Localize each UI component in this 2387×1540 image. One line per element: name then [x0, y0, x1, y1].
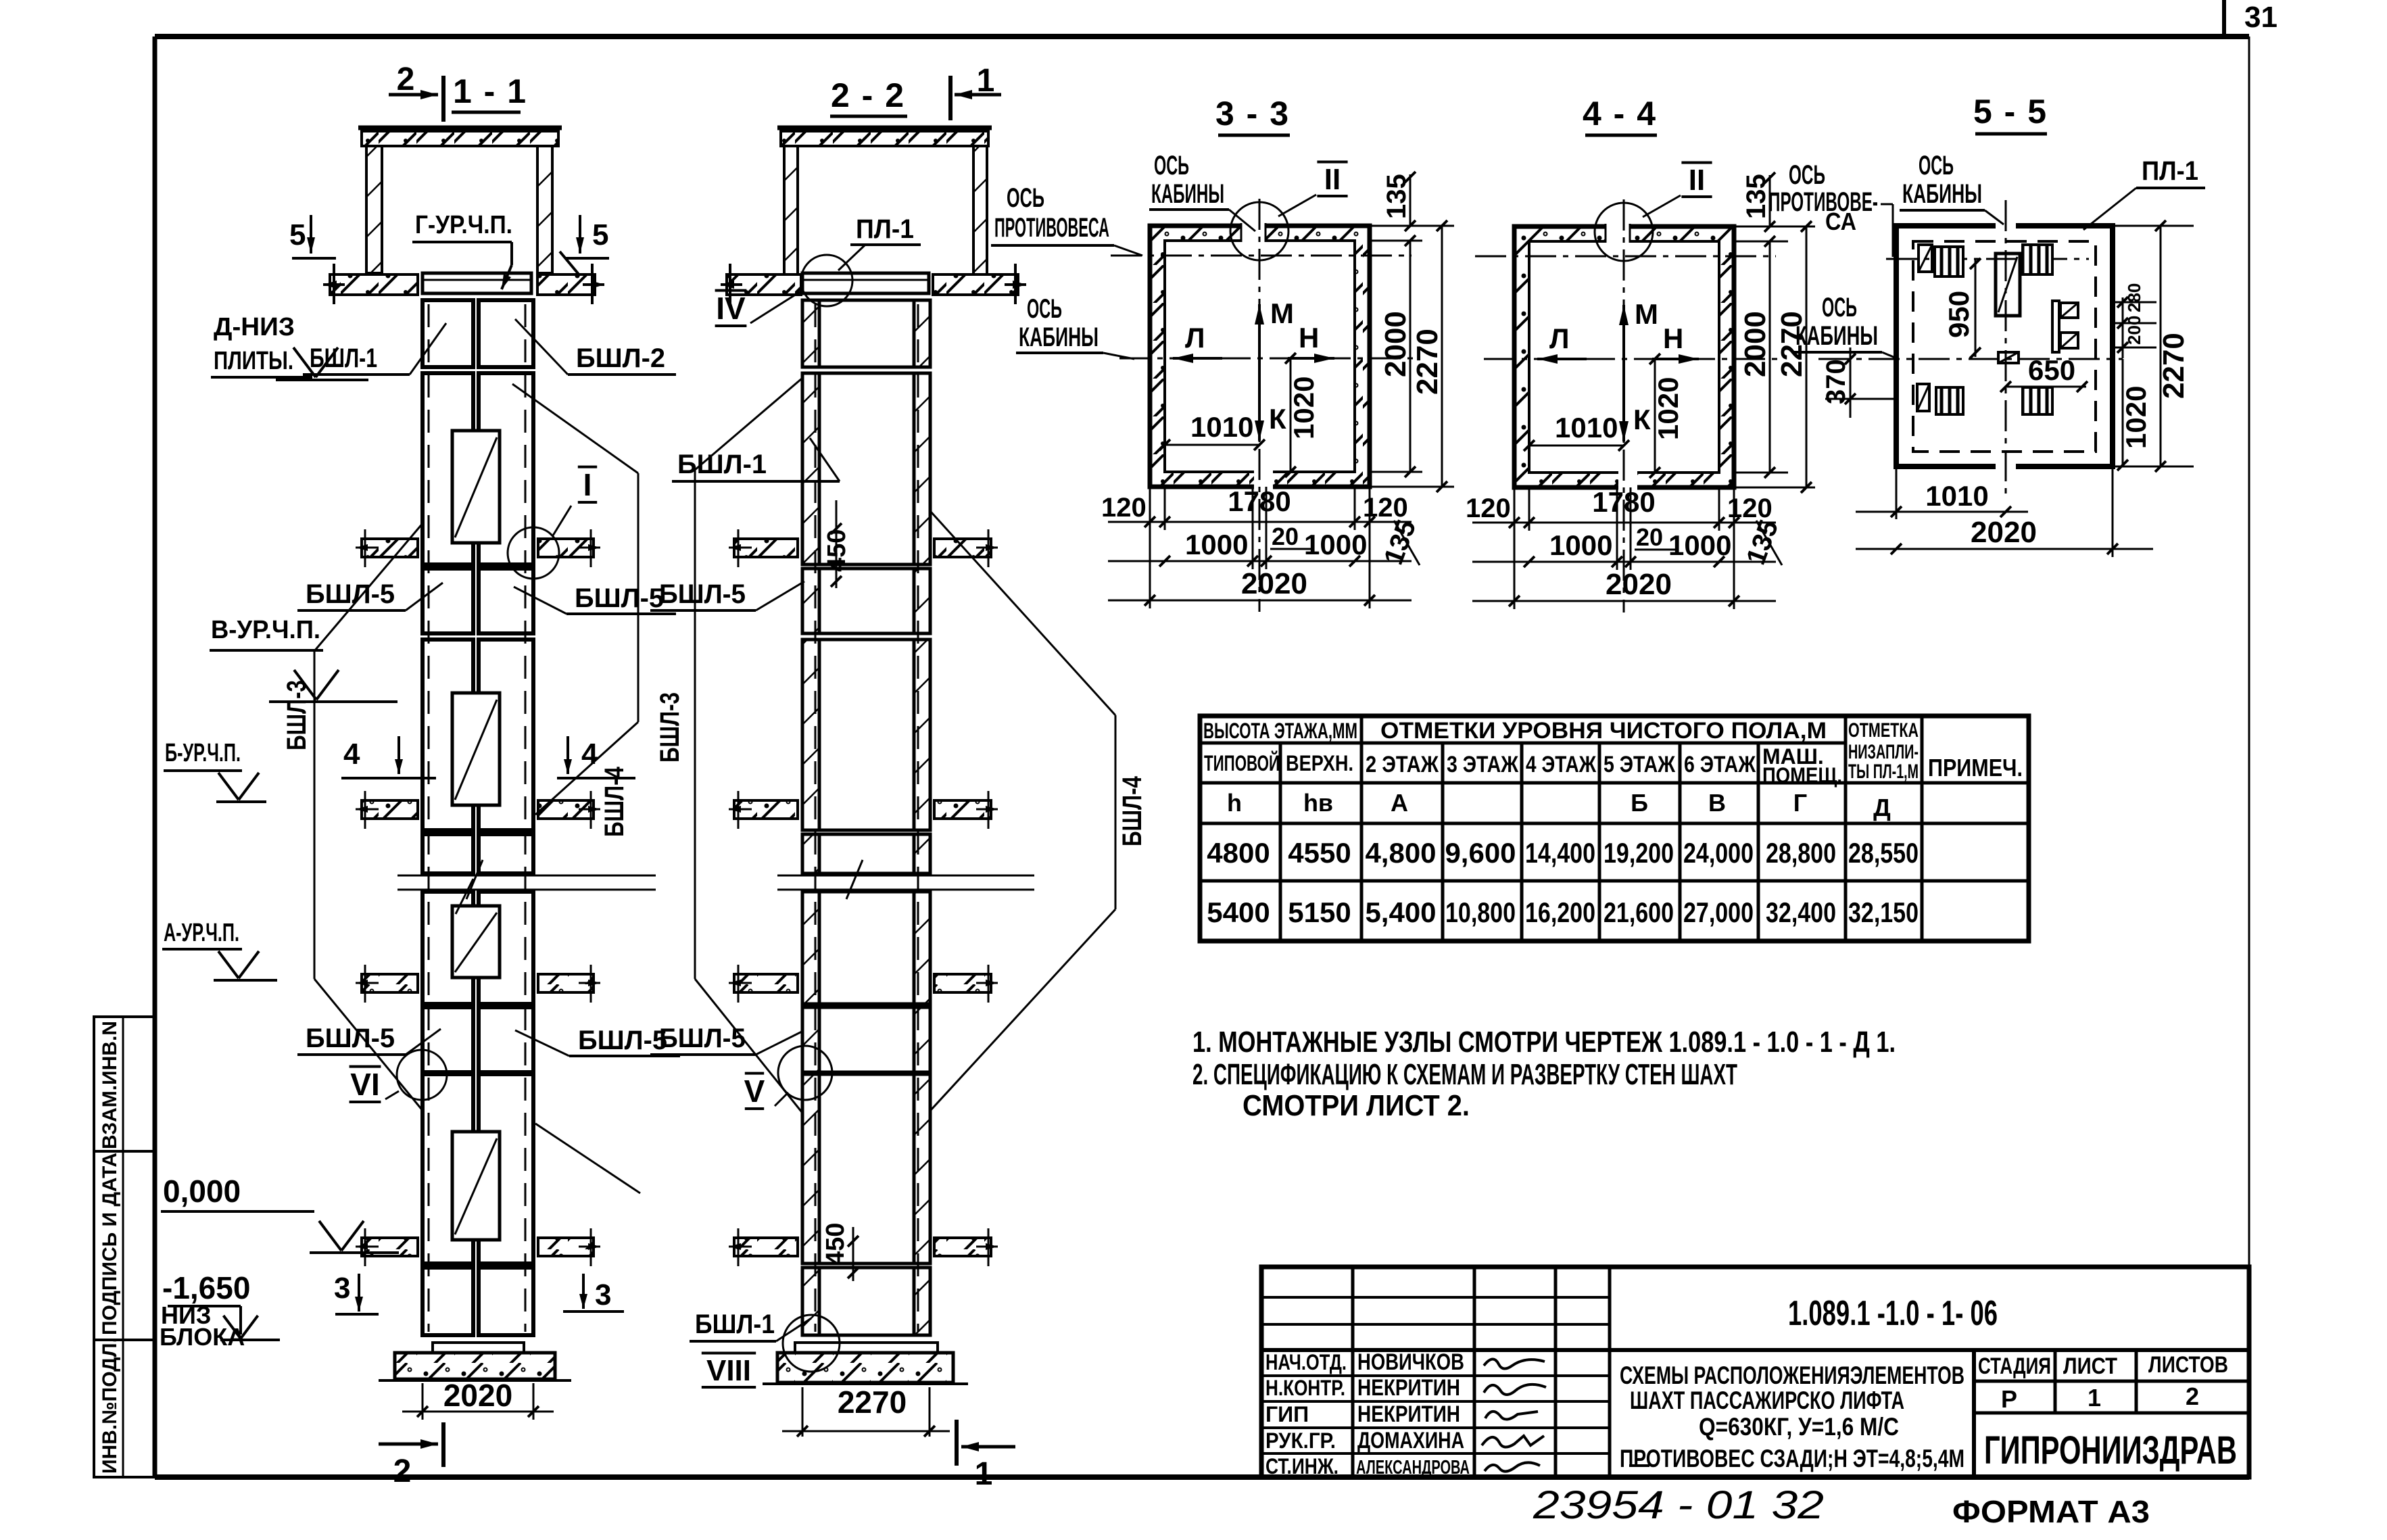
- dimension 2020 bottom of 1-1: [422, 1383, 424, 1420]
- svg-text:ПРОТИВОВЕС СЗАДИ;Н ЭТ=4,8;5,4: ПРОТИВОВЕС СЗАДИ;Н ЭТ=4,8;5,4М: [1620, 1445, 1964, 1472]
- svg-text:-1,650: -1,650: [162, 1270, 250, 1305]
- axis arrow L: [1173, 357, 1222, 360]
- svg-text:3: 3: [595, 1278, 611, 1312]
- svg-text:2270: 2270: [2157, 333, 2190, 399]
- svg-text:1020: 1020: [1288, 377, 1320, 439]
- svg-text:БШЛ-5: БШЛ-5: [306, 1024, 395, 1053]
- machine room 2-2 floor slab PL-1: [802, 273, 929, 293]
- svg-text:БШЛ-4: БШЛ-4: [1117, 775, 1147, 846]
- plan 5-5 grille bottom-left: [1936, 387, 1963, 414]
- svg-text:2 - 2: 2 - 2: [831, 76, 905, 114]
- svg-text:ГИПРОНИИЗДРАВ: ГИПРОНИИЗДРАВ: [1984, 1428, 2237, 1472]
- svg-text:6 ЭТАЖ: 6 ЭТАЖ: [1684, 752, 1756, 777]
- dimension 2020 under plan 5-5: [2112, 466, 2114, 557]
- cross-section box walls: [1514, 226, 1734, 487]
- plan 5-5 counterweight block: [1996, 254, 2020, 316]
- svg-text:5400: 5400: [1207, 896, 1270, 928]
- svg-text:4 - 4: 4 - 4: [1583, 95, 1657, 133]
- svg-text:4 ЭТАЖ: 4 ЭТАЖ: [1526, 752, 1596, 777]
- svg-text:1 - 1: 1 - 1: [453, 72, 527, 110]
- svg-text:В-УР.Ч.П.: В-УР.Ч.П.: [211, 616, 320, 644]
- detail marker II with circle on top wall: [1230, 202, 1288, 260]
- svg-text:28,800: 28,800: [1766, 837, 1836, 869]
- svg-text:БШЛ-5: БШЛ-5: [659, 1024, 746, 1053]
- svg-text:Б-УР.Ч.П.: Б-УР.Ч.П.: [165, 739, 241, 767]
- machine room 1-1 roof slab: [358, 126, 562, 130]
- machine room 1-1 left wall: [366, 146, 382, 273]
- dimension 135 top right of 4-4: [1769, 175, 1771, 226]
- detail marker II with circle on top wall: [1595, 203, 1653, 261]
- svg-text:950: 950: [1943, 291, 1975, 338]
- plan 5-5 hoist beam parts right: [2052, 301, 2059, 352]
- shaft 2-2 wall tiers: [802, 300, 819, 367]
- title block right part lines: [1972, 1350, 1976, 1477]
- svg-text:I: I: [583, 467, 592, 502]
- svg-text:4800: 4800: [1207, 837, 1270, 869]
- svg-text:БШЛ-2: БШЛ-2: [576, 343, 665, 373]
- svg-text:5,400: 5,400: [1365, 896, 1436, 928]
- axis arrow L: [1537, 358, 1587, 360]
- shaft 2-2 foundation slab: [777, 1353, 953, 1382]
- dimension 2000 right of 3-3: [1409, 241, 1412, 472]
- detail marker VIII with circle: [702, 1352, 756, 1355]
- svg-text:19,200: 19,200: [1604, 837, 1674, 869]
- svg-text:4: 4: [343, 738, 360, 771]
- svg-text:ПЛ-1: ПЛ-1: [2142, 156, 2198, 186]
- svg-text:ПОМЕЩ.: ПОМЕЩ.: [1762, 763, 1842, 788]
- svg-text:2. СПЕЦИФИКАЦИЮ К СХЕМАМ: 2. СПЕЦИФИКАЦИЮ К СХЕМАМ И РАЗВЕРТКУ СТЕ…: [1192, 1058, 1737, 1091]
- title block vertical lines left part: [1351, 1267, 1355, 1477]
- shaft 1-1 dashed guide lines: [428, 304, 430, 1332]
- svg-text:28,550: 28,550: [1848, 837, 1919, 869]
- dimension 1010 inside box: [1529, 445, 1624, 447]
- machine room 1-1 right wall: [537, 146, 552, 273]
- dimension 2270 right of plan 5-5: [2113, 225, 2194, 227]
- svg-text:120: 120: [1727, 494, 1773, 523]
- vertical cabin axis dash-dot: [1623, 199, 1625, 612]
- svg-text:VI: VI: [350, 1067, 379, 1102]
- 3-3 right side extension lines: [1370, 225, 1454, 227]
- svg-text:2: 2: [2186, 1382, 2199, 1410]
- svg-text:КАБИНЫ: КАБИНЫ: [1151, 179, 1224, 209]
- svg-text:СТАДИЯ: СТАДИЯ: [1978, 1353, 2051, 1379]
- svg-text:1000: 1000: [1185, 529, 1248, 560]
- svg-text:ПРИМЕЧ.: ПРИМЕЧ.: [1928, 754, 2023, 781]
- svg-text:21,600: 21,600: [1604, 896, 1674, 928]
- bottom dimension row 1000/20/1000: [1252, 487, 1254, 569]
- machine room 1-1 floor slab left wing: [330, 274, 418, 295]
- plan 5-5 grille top-right: [2023, 245, 2052, 274]
- svg-text:2000: 2000: [1379, 311, 1412, 377]
- top wall door opening: [1241, 222, 1265, 244]
- svg-text:1: 1: [977, 63, 995, 99]
- bottom dimension row 120/1780/120: [1149, 487, 1151, 608]
- svg-text:ШАХТ ПАССАЖИРСКО ЛИФТА: ШАХТ ПАССАЖИРСКО ЛИФТА: [1630, 1387, 1904, 1414]
- svg-text:1.089.1 -1.0 - 1- 06: 1.089.1 -1.0 - 1- 06: [1788, 1294, 1998, 1333]
- svg-text:ЛИСТ: ЛИСТ: [2063, 1353, 2117, 1379]
- plan 5-5 small block on cabin axis: [1998, 352, 2019, 363]
- detail marker IV with circle: [715, 289, 747, 292]
- svg-text:32,400: 32,400: [1766, 896, 1836, 928]
- svg-text:0,000: 0,000: [163, 1174, 241, 1209]
- svg-text:200: 200: [2124, 316, 2144, 345]
- title block horizontal lines top rows: [1261, 1296, 1610, 1299]
- shaft 1-1 door opening tier 3: [452, 693, 500, 805]
- section cut mark 2 bottom: [379, 1443, 438, 1446]
- svg-text:20: 20: [1636, 523, 1663, 551]
- svg-text:ВЫСОТА ЭТАЖА,ММ: ВЫСОТА ЭТАЖА,ММ: [1203, 719, 1357, 743]
- svg-text:БШЛ-1: БШЛ-1: [310, 343, 377, 373]
- svg-text:450: 450: [823, 529, 851, 572]
- plan 5-5 horizontal cabin axis: [1818, 358, 2123, 360]
- svg-text:1: 1: [975, 1456, 993, 1492]
- svg-text:2020: 2020: [443, 1378, 512, 1413]
- svg-text:Л: Л: [1549, 322, 1569, 354]
- shaft 1-1 door opening tier 7: [452, 1132, 500, 1240]
- bottom dimension row 1000/20/1000: [1616, 487, 1618, 570]
- svg-text:650: 650: [2028, 354, 2075, 386]
- svg-text:К: К: [1269, 403, 1286, 435]
- svg-text:2: 2: [393, 1453, 412, 1489]
- svg-text:450: 450: [821, 1223, 850, 1266]
- svg-text:Н: Н: [1299, 322, 1319, 354]
- svg-text:VIII: VIII: [706, 1354, 751, 1387]
- svg-text:hв: hв: [1303, 789, 1333, 817]
- svg-text:1020: 1020: [1652, 377, 1684, 440]
- svg-text:ПЛИТЫ.: ПЛИТЫ.: [214, 347, 293, 375]
- 4-4 right side extension lines: [1734, 226, 1815, 228]
- svg-text:Д-НИЗ: Д-НИЗ: [214, 313, 295, 341]
- detail marker I with circle: [578, 466, 597, 468]
- shaft 1-1 block columns BShL tiers: [423, 300, 473, 367]
- cross-section box walls: [1150, 226, 1370, 487]
- svg-text:9,600: 9,600: [1445, 837, 1516, 869]
- section cut mark 1 bottom: [955, 1420, 959, 1466]
- svg-text:ПЛ-1: ПЛ-1: [856, 214, 914, 244]
- svg-text:1000: 1000: [1668, 529, 1731, 561]
- svg-text:Р: Р: [2001, 1385, 2017, 1413]
- svg-text:14,400: 14,400: [1525, 837, 1595, 869]
- svg-text:КАБИНЫ: КАБИНЫ: [1795, 321, 1878, 351]
- svg-text:БШЛ-5: БШЛ-5: [659, 579, 746, 609]
- svg-text:120: 120: [1466, 494, 1511, 523]
- dimension 2270 right of 3-3: [1441, 226, 1443, 487]
- horizontal cabin axis dash-dot: [1119, 358, 1417, 360]
- dimension 2270 right of 4-4: [1806, 226, 1808, 487]
- svg-text:СХЕМЫ РАСПОЛОЖЕНИЯЭЛЕМЕНТОВ: СХЕМЫ РАСПОЛОЖЕНИЯЭЛЕМЕНТОВ: [1620, 1362, 1964, 1389]
- svg-text:120: 120: [1363, 493, 1408, 523]
- sheet number 31 top right: [2222, 0, 2226, 37]
- dimension 450 bottom of shaft 2-2: [852, 1227, 854, 1281]
- machine room 1-1 floor slab right wing: [537, 274, 595, 295]
- machine room 2-2 right wall: [973, 146, 987, 276]
- svg-text:БШЛ-5: БШЛ-5: [578, 1026, 667, 1055]
- machine room plan 5-5 outline: [1896, 226, 2113, 466]
- svg-text:КАБИНЫ: КАБИНЫ: [1019, 322, 1099, 352]
- svg-text:ОСЬ: ОСЬ: [1154, 151, 1189, 181]
- svg-text:5 - 5: 5 - 5: [1973, 93, 2048, 130]
- svg-text:II: II: [1689, 164, 1705, 197]
- top wall door opening: [1606, 223, 1630, 245]
- svg-text:В: В: [1708, 789, 1726, 817]
- svg-text:ОСЬ: ОСЬ: [1027, 294, 1062, 324]
- svg-text:2 ЭТАЖ: 2 ЭТАЖ: [1366, 752, 1439, 777]
- plan 5-5 corner anchor top-left: [1919, 245, 1932, 272]
- svg-text:ГИП: ГИП: [1265, 1402, 1309, 1426]
- svg-text:ОСЬ: ОСЬ: [1007, 183, 1044, 213]
- svg-text:Н: Н: [1663, 322, 1683, 354]
- floor levels table: [1200, 716, 2029, 941]
- svg-text:М: М: [1635, 298, 1658, 330]
- title block main horizontal divider: [1261, 1348, 2249, 1352]
- title block name rows: [1261, 1374, 1610, 1377]
- title block outer frame: [1261, 1267, 2249, 1477]
- svg-text:5 ЭТАЖ: 5 ЭТАЖ: [1604, 752, 1675, 777]
- svg-text:2270: 2270: [1411, 329, 1444, 395]
- dimensions 200 280 right of plan 5-5: [2122, 297, 2124, 358]
- bottom wall opening: [1618, 470, 1637, 490]
- svg-text:II: II: [1324, 163, 1341, 196]
- shaft 2-2 side floor slabs: [734, 539, 798, 557]
- machine room 2-2 floor slab right wing: [933, 274, 1018, 295]
- svg-text:НАЧ.ОТД.: НАЧ.ОТД.: [1265, 1350, 1347, 1374]
- axis arrow K: [1622, 379, 1625, 441]
- left margin attribute boxes: [94, 1017, 155, 1151]
- svg-text:2270: 2270: [838, 1385, 907, 1420]
- svg-text:2020: 2020: [1241, 567, 1307, 600]
- svg-text:3 ЭТАЖ: 3 ЭТАЖ: [1447, 752, 1518, 777]
- svg-text:М: М: [1270, 297, 1294, 329]
- svg-text:h: h: [1227, 789, 1242, 817]
- dimension 450 top of shaft 2-2: [836, 500, 838, 588]
- signature squiggles: [1484, 1359, 1545, 1368]
- svg-text:1000: 1000: [1304, 529, 1367, 560]
- dimension 1010 under plan 5-5: [1896, 466, 1898, 519]
- shaft 1-1 door opening tier 1: [452, 431, 500, 543]
- svg-text:ОТМЕТКА: ОТМЕТКА: [1848, 719, 1919, 742]
- svg-text:ИНВ.№ПОДЛ.: ИНВ.№ПОДЛ.: [99, 1337, 121, 1474]
- svg-text:120: 120: [1101, 493, 1147, 523]
- svg-text:5150: 5150: [1288, 896, 1351, 928]
- svg-text:135: 135: [1382, 174, 1412, 219]
- svg-text:ВЕРХН.: ВЕРХН.: [1286, 751, 1353, 775]
- dimension 370 left of plan 5-5: [1850, 347, 1852, 418]
- svg-text:1010: 1010: [1190, 411, 1253, 443]
- svg-text:ПРОТИВОВЕСА: ПРОТИВОВЕСА: [994, 213, 1109, 243]
- svg-text:1000: 1000: [1549, 529, 1612, 561]
- svg-text:10,800: 10,800: [1445, 896, 1516, 928]
- svg-text:БШЛ-1: БШЛ-1: [695, 1309, 775, 1339]
- svg-text:24,000: 24,000: [1683, 837, 1754, 869]
- svg-text:ФОРМАТ А3: ФОРМАТ А3: [1952, 1494, 2150, 1529]
- svg-text:СТ.ИНЖ.: СТ.ИНЖ.: [1265, 1454, 1339, 1478]
- svg-text:РУК.ГР.: РУК.ГР.: [1265, 1428, 1336, 1453]
- dimension 135 top right of 3-3: [1409, 174, 1412, 226]
- shaft 2-2 plinth: [795, 1343, 938, 1353]
- svg-text:ЛИСТОВ: ЛИСТОВ: [2148, 1352, 2228, 1378]
- svg-text:2000: 2000: [1739, 311, 1772, 377]
- svg-text:V: V: [744, 1074, 765, 1109]
- plan 5-5 grille bottom-right: [2023, 387, 2052, 414]
- dimension 1020 inside box: [1290, 358, 1292, 472]
- detail marker V with circle: [745, 1072, 764, 1075]
- dimension 135 bottom right of 3-3: [1394, 521, 1420, 565]
- dimension 1020 inside box: [1654, 359, 1656, 473]
- counterweight axis dash-dot: [1111, 255, 1412, 257]
- svg-text:ДОМАХИНА: ДОМАХИНА: [1357, 1428, 1464, 1453]
- svg-text:27,000: 27,000: [1683, 896, 1754, 928]
- plan 5-5 vertical cabin axis: [2005, 200, 2007, 500]
- svg-text:Н.КОНТР.: Н.КОНТР.: [1265, 1376, 1345, 1400]
- shaft 1-1 door opening tier 5: [452, 906, 500, 978]
- svg-text:1: 1: [2088, 1384, 2101, 1412]
- svg-text:АЛЕКСАНДРОВА: АЛЕКСАНДРОВА: [1356, 1457, 1470, 1478]
- svg-text:1010: 1010: [1925, 480, 1988, 512]
- machine room 2-2 floor slab left wing: [727, 274, 801, 295]
- dimension 950 in plan 5-5: [1975, 259, 1977, 357]
- svg-text:Б: Б: [1631, 789, 1648, 817]
- svg-text:370: 370: [1821, 359, 1851, 404]
- svg-text:5: 5: [289, 218, 306, 251]
- svg-text:Г-УР.Ч.П.: Г-УР.Ч.П.: [415, 211, 512, 239]
- svg-text:32,150: 32,150: [1848, 896, 1919, 928]
- plan 5-5 grille top-left: [1935, 247, 1963, 276]
- svg-text:ТЫ ПЛ-1,М: ТЫ ПЛ-1,М: [1848, 761, 1919, 783]
- svg-text:ОСЬ: ОСЬ: [1789, 160, 1825, 190]
- svg-text:Д: Д: [1873, 794, 1891, 821]
- svg-text:31: 31: [2244, 1, 2277, 34]
- svg-text:5: 5: [592, 218, 608, 251]
- svg-text:2020: 2020: [1971, 516, 2037, 549]
- svg-text:1780: 1780: [1592, 486, 1655, 518]
- svg-text:4550: 4550: [1288, 837, 1351, 869]
- shaft 2-2 break lines: [777, 875, 1034, 877]
- shaft 1-1 side floor slabs: [362, 539, 418, 557]
- shaft 1-1 plinth: [433, 1343, 524, 1353]
- svg-text:Г: Г: [1793, 789, 1807, 817]
- svg-text:НОВИЧКОВ: НОВИЧКОВ: [1357, 1349, 1464, 1375]
- dimension 650 in plan 5-5: [2006, 386, 2086, 388]
- svg-text:ОТМЕТКИ УРОВНЯ ЧИСТОГО ПОЛА,: ОТМЕТКИ УРОВНЯ ЧИСТОГО ПОЛА,М: [1380, 718, 1827, 744]
- counterweight axis dash-dot: [1475, 256, 1776, 258]
- svg-text:3 - 3: 3 - 3: [1215, 95, 1290, 133]
- axis arrow M: [1622, 305, 1625, 404]
- dimension 135 bottom right of 4-4: [1756, 521, 1782, 565]
- axis arrow K: [1258, 379, 1261, 441]
- dimension 1020 right of plan 5-5: [2122, 359, 2124, 466]
- svg-text:4: 4: [581, 738, 598, 771]
- svg-text:К: К: [1633, 404, 1651, 435]
- bottom dimension row 120/1780/120: [1514, 487, 1516, 609]
- detail marker VI with circle: [349, 1065, 381, 1068]
- shaft 1-1 foundation slab: [395, 1353, 555, 1379]
- svg-text:Л: Л: [1185, 322, 1205, 354]
- svg-text:135: 135: [1741, 174, 1771, 219]
- section cut mark 1 top: [948, 76, 953, 120]
- svg-text:НЕКРИТИН: НЕКРИТИН: [1357, 1401, 1460, 1427]
- svg-text:4,800: 4,800: [1365, 837, 1436, 869]
- axis arrow N: [1652, 358, 1699, 360]
- svg-text:ПРОТИВОВЕ-: ПРОТИВОВЕ-: [1768, 187, 1878, 217]
- svg-text:А: А: [1391, 789, 1408, 817]
- svg-text:1. МОНТАЖНЫЕ УЗЛЫ СМОТРИ: 1. МОНТАЖНЫЕ УЗЛЫ СМОТРИ ЧЕРТЕЖ 1.089.1 …: [1192, 1026, 1896, 1059]
- svg-text:16,200: 16,200: [1525, 896, 1595, 928]
- svg-text:БШЛ-5: БШЛ-5: [306, 579, 395, 609]
- svg-text:СА: СА: [1825, 208, 1856, 235]
- svg-text:1010: 1010: [1555, 412, 1618, 443]
- plan 5-5 counterweight axis: [1886, 258, 2089, 260]
- drawing frame border: [155, 34, 2249, 39]
- dimension 1010 inside box: [1165, 444, 1259, 446]
- svg-text:БШЛ-3: БШЛ-3: [655, 692, 685, 763]
- axis arrow M: [1258, 304, 1261, 403]
- svg-text:23954 - 01 32: 23954 - 01 32: [1533, 1483, 1824, 1527]
- svg-text:ОСЬ: ОСЬ: [1822, 293, 1857, 322]
- dimension 2000 right of 4-4: [1769, 241, 1771, 473]
- svg-text:20: 20: [1272, 523, 1299, 550]
- svg-text:КАБИНЫ: КАБИНЫ: [1902, 179, 1982, 209]
- svg-text:СМОТРИ ЛИСТ 2.: СМОТРИ ЛИСТ 2.: [1243, 1089, 1470, 1122]
- machine room 1-1 floor slab PL-1: [423, 273, 531, 293]
- bottom wall opening: [1254, 469, 1273, 489]
- svg-text:1020: 1020: [2120, 386, 2152, 449]
- dimension 2270 bottom of 2-2: [802, 1387, 804, 1437]
- svg-text:ПОДПИСЬ И ДАТА: ПОДПИСЬ И ДАТА: [99, 1153, 121, 1335]
- shaft 1-1 break lines: [397, 875, 656, 877]
- svg-text:ВЗАМ.ИНВ.N: ВЗАМ.ИНВ.N: [99, 1021, 121, 1149]
- svg-text:НЕКРИТИН: НЕКРИТИН: [1357, 1375, 1460, 1401]
- svg-text:3: 3: [334, 1272, 350, 1305]
- svg-text:БШЛ-5: БШЛ-5: [575, 583, 664, 613]
- plan 5-5 corner anchor bottom-left: [1917, 384, 1929, 411]
- svg-text:2: 2: [397, 62, 415, 97]
- svg-text:1780: 1780: [1228, 485, 1291, 517]
- svg-text:А-УР.Ч.П.: А-УР.Ч.П.: [164, 919, 239, 947]
- bottom dimension row 2020: [1472, 600, 1776, 602]
- axis arrow N: [1288, 357, 1334, 360]
- plan 5-5 inner dashed wall line: [1913, 241, 2096, 452]
- shaft 2-2 dashed guides: [815, 304, 817, 1332]
- bottom dimension row 2020: [1108, 600, 1412, 602]
- svg-text:2020: 2020: [1606, 568, 1672, 601]
- machine room 2-2 left wall: [784, 146, 798, 276]
- machine room 2-2 roof slab: [777, 126, 992, 130]
- horizontal cabin axis dash-dot: [1484, 358, 1781, 360]
- svg-text:Q=630КГ, У=1,6 М/С: Q=630КГ, У=1,6 М/С: [1699, 1413, 1899, 1441]
- vertical cabin axis dash-dot: [1259, 199, 1261, 612]
- svg-text:БШЛ-3: БШЛ-3: [282, 680, 312, 750]
- svg-text:ОСЬ: ОСЬ: [1919, 151, 1954, 181]
- svg-text:IV: IV: [716, 291, 746, 326]
- svg-text:280: 280: [2124, 283, 2144, 312]
- svg-text:ТИПОВОЙ: ТИПОВОЙ: [1204, 751, 1280, 775]
- svg-text:БШЛ-1: БШЛ-1: [677, 450, 767, 479]
